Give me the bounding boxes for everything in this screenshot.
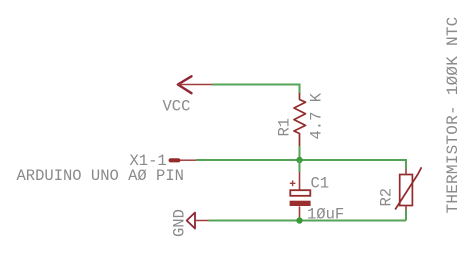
svg-text:VCC: VCC <box>163 98 191 116</box>
svg-text:C1: C1 <box>311 174 330 192</box>
wire node A down to R2 <box>405 159 407 169</box>
wire R1 bottom to node A <box>299 146 301 160</box>
supply symbol VCC arrow <box>178 76 212 93</box>
wire node A to C1 <box>299 160 301 172</box>
junction node A <box>296 157 302 163</box>
svg-text:4.7 K: 4.7 K <box>308 92 326 139</box>
svg-text:ARDUINO UNO AØ PIN: ARDUINO UNO AØ PIN <box>17 167 184 185</box>
thermistor R2 <box>395 167 421 209</box>
wire R2 bottom to GND rail <box>405 210 407 221</box>
resistor R1 <box>294 93 306 146</box>
junction GND rail at C1 <box>296 217 302 223</box>
svg-text:R1: R1 <box>276 118 294 137</box>
wire VCC to R1 top <box>212 85 300 94</box>
svg-text:GND: GND <box>171 209 189 237</box>
wire GND rail (GND to R2 branch) <box>209 220 407 222</box>
capacitor C1 <box>290 172 311 221</box>
svg-text:THERMISTOR- 1ØØK NTC: THERMISTOR- 1ØØK NTC <box>444 16 462 213</box>
connector pin X1-1 <box>169 158 197 162</box>
wire node A horizontal (X1-1 to R2 branch) <box>196 159 406 161</box>
ground symbol GND <box>187 213 209 229</box>
svg-text:R2: R2 <box>378 188 396 207</box>
